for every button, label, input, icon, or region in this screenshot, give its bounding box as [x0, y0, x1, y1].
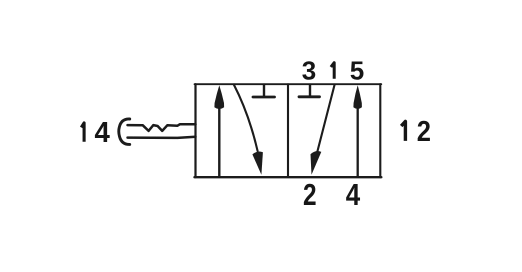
digit 1 of 14: [81, 123, 84, 142]
wire: diagonal left box: [234, 85, 258, 152]
port blocked symbol: right box T: [299, 85, 320, 97]
wire: diagonal right box: [317, 85, 335, 153]
valve body outline: [195, 84, 382, 177]
arrowhead left box up arrow: [214, 85, 224, 109]
wire: up-arrow line right box: [357, 98, 359, 177]
label 1 (top): [331, 63, 334, 79]
svg-text:3: 3: [302, 56, 316, 86]
label 12: [401, 114, 431, 147]
svg-text:5: 5: [350, 56, 364, 86]
port blocked symbol: left box T: [253, 85, 275, 97]
rod top line with spring zigzag: [128, 124, 196, 131]
button cap: [119, 119, 130, 144]
position divider: [287, 84, 289, 177]
svg-text:4: 4: [346, 177, 361, 211]
digit 1 of 12: [401, 121, 405, 140]
svg-text:2: 2: [417, 114, 431, 147]
svg-text:2: 2: [303, 177, 317, 211]
rod bottom line: [128, 137, 196, 138]
wire: up-arrow line left box: [218, 98, 220, 177]
arrowhead right box diagonal: [311, 151, 322, 175]
svg-text:4: 4: [95, 115, 111, 148]
arrowhead right box up arrow: [353, 85, 362, 109]
arrowhead left box diagonal: [252, 151, 263, 174]
label 14: [81, 115, 110, 148]
push button actuator: [119, 119, 196, 144]
